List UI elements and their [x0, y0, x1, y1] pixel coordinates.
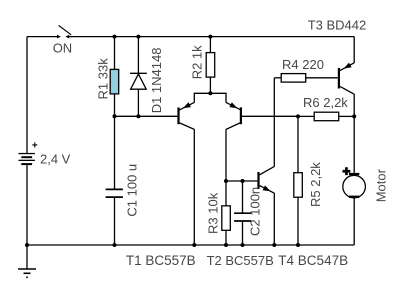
label C2 100n — [248, 187, 263, 236]
node R5 top — [296, 114, 300, 118]
wire bottom rail — [27, 244, 354, 246]
resistor R5 — [294, 116, 303, 245]
node emitters junction — [208, 91, 212, 95]
wire top rail right of switch — [69, 36, 354, 38]
node T4 emitter bottom — [272, 243, 276, 247]
label T3 BD442 — [308, 18, 367, 33]
wire T2 base to R5 node — [242, 115, 298, 117]
diode D1 — [130, 37, 147, 117]
label C1 100 u — [125, 164, 140, 217]
svg-text:R6 2,2k: R6 2,2k — [303, 95, 348, 110]
svg-text:R1 33k: R1 33k — [95, 58, 110, 100]
svg-text:T3 BD442: T3 BD442 — [308, 18, 367, 33]
wire T2 collector drop — [225, 129, 227, 206]
battery label 2,4 V — [40, 151, 71, 166]
svg-text:Motor: Motor — [374, 168, 389, 202]
node T2 collector / T4 base — [224, 179, 228, 183]
wire left rail lower — [26, 165, 28, 245]
capacitor C2 — [234, 181, 251, 245]
node R1 top — [113, 35, 117, 39]
wire top rail left of switch — [27, 36, 58, 38]
transistor T3 — [338, 63, 354, 95]
label T1 BC557B — [126, 253, 196, 268]
battery BT 2,4 V — [19, 140, 38, 165]
capacitor C1 — [106, 116, 123, 245]
switch ON — [57, 26, 71, 39]
svg-text:+: + — [32, 140, 38, 151]
node bottom-left junction — [25, 243, 29, 247]
wire T1 collector drop — [193, 129, 195, 245]
label R2 1k — [189, 45, 204, 79]
svg-text:C2 100n: C2 100n — [248, 187, 263, 236]
label R4 220 — [282, 57, 324, 72]
svg-text:D1 1N4148: D1 1N4148 — [149, 48, 164, 114]
label T4 BC547B — [278, 253, 348, 268]
label T2 BC557B — [207, 253, 274, 268]
node R5 bottom rail — [296, 243, 300, 247]
node C2 top — [241, 179, 245, 183]
label Motor — [374, 168, 389, 202]
svg-text:2,4 V: 2,4 V — [40, 151, 71, 166]
svg-text:T2 BC557B: T2 BC557B — [207, 253, 274, 268]
svg-text:+: + — [343, 163, 351, 178]
node R6 right — [352, 114, 356, 118]
node T1 collector bottom — [192, 243, 196, 247]
node C1 bottom — [113, 243, 117, 247]
svg-text:R4 220: R4 220 — [282, 57, 324, 72]
svg-text:T1 BC557B: T1 BC557B — [126, 253, 196, 268]
resistor R6 — [298, 112, 354, 121]
label R6 2,2k — [303, 95, 348, 110]
wire T3 collector drop — [353, 94, 355, 173]
switch label ON — [53, 41, 72, 56]
wire T3 emitter from top rail — [353, 37, 355, 63]
wire T4 base row — [226, 180, 257, 182]
svg-text:T4 BC547B: T4 BC547B — [278, 253, 348, 268]
ground — [18, 245, 36, 277]
transistor T2 — [226, 102, 242, 129]
label D1 1N4148 — [149, 48, 164, 114]
resistor R4 — [274, 74, 338, 83]
wire emitter bar — [194, 93, 226, 102]
node C2 bottom rail — [241, 243, 245, 247]
resistor R2 — [206, 37, 215, 94]
transistor T4 — [257, 166, 274, 193]
svg-text:R5 2,2k: R5 2,2k — [308, 162, 323, 207]
label R1 33k — [95, 58, 110, 100]
resistor R3 — [222, 206, 231, 245]
resistor R1 — [110, 37, 119, 117]
node R1 bottom — [113, 114, 117, 118]
node D1 top — [136, 35, 140, 39]
node D1 bottom — [136, 114, 140, 118]
motor M — [343, 163, 366, 245]
wire T4 collector riser — [273, 78, 275, 167]
label R3 10k — [205, 192, 220, 234]
transistor T1 — [177, 102, 194, 129]
wire left rail upper — [26, 37, 28, 154]
svg-text:R2 1k: R2 1k — [189, 45, 204, 79]
node R3 bottom rail — [224, 243, 228, 247]
svg-text:C1 100 u: C1 100 u — [125, 164, 140, 217]
svg-text:ON: ON — [53, 41, 72, 56]
wire T4 emitter drop — [273, 193, 275, 245]
wire base node row — [115, 115, 178, 117]
node R2 top — [208, 35, 212, 39]
svg-text:R3 10k: R3 10k — [205, 192, 220, 234]
label R5 2,2k — [308, 162, 323, 207]
